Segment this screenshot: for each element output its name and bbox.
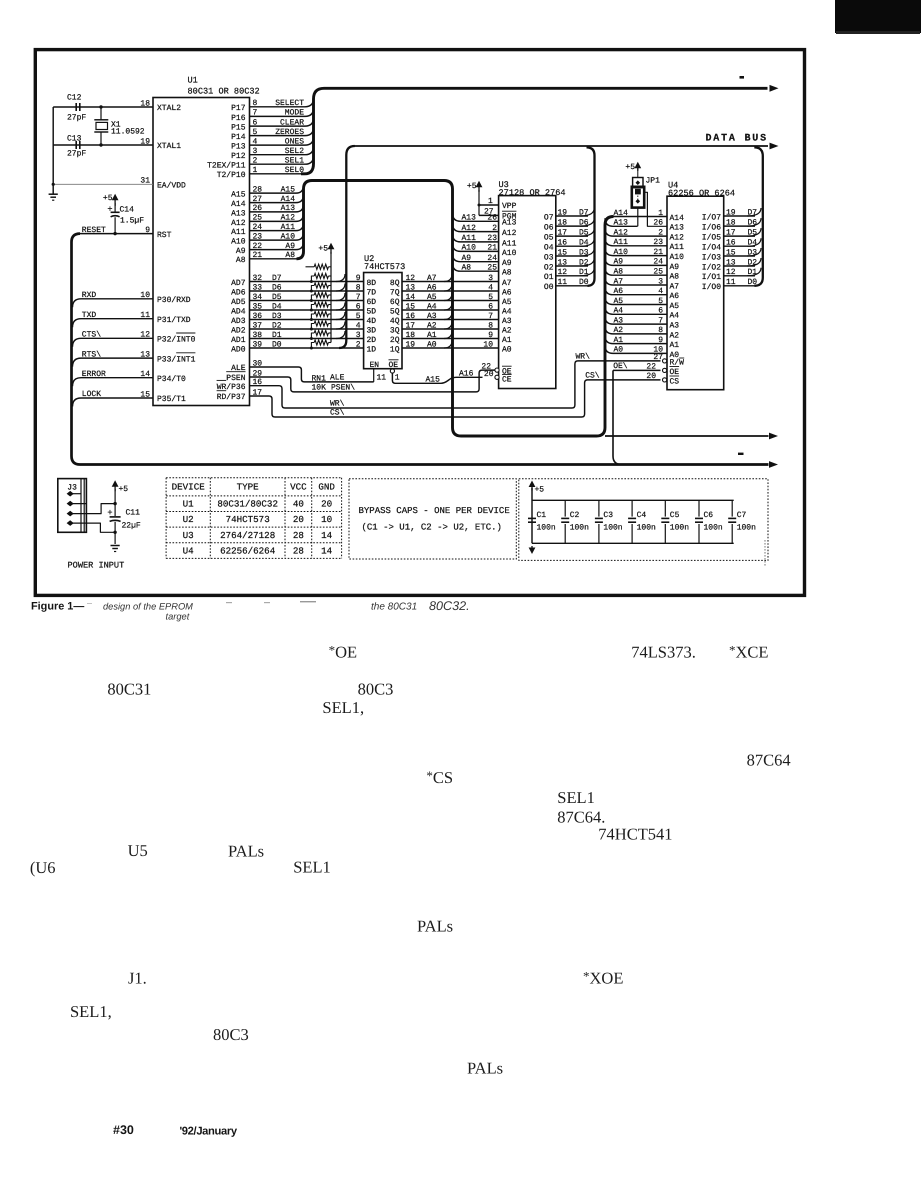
svg-text:POWER INPUT: POWER INPUT <box>68 561 125 571</box>
svg-text:CLEAR: CLEAR <box>280 118 304 127</box>
svg-text:A5: A5 <box>670 302 680 311</box>
wires RXD TXD CTS RTS ERROR LOCK from U1 to trunk <box>73 299 154 308</box>
svg-text:DATA BUS: DATA BUS <box>706 134 768 145</box>
svg-text:3D: 3D <box>367 326 377 335</box>
svg-text:*XCE: *XCE <box>729 643 769 662</box>
svg-text:A13: A13 <box>281 204 296 213</box>
svg-text:RD/P37: RD/P37 <box>217 393 246 402</box>
svg-text:38: 38 <box>253 331 263 340</box>
svg-text:SELECT: SELECT <box>275 99 304 108</box>
svg-text:A0: A0 <box>502 345 512 354</box>
bypass +5 rail and ground rail <box>531 488 533 543</box>
svg-text:A0: A0 <box>614 346 624 355</box>
svg-text:7Q: 7Q <box>390 288 400 297</box>
svg-text:A13: A13 <box>502 219 517 228</box>
svg-text:I/O7: I/O7 <box>702 213 721 222</box>
svg-text:(C1 -> U1, C2 -> U2, ETC.): (C1 -> U1, C2 -> U2, ETC.) <box>362 523 502 533</box>
svg-text:O5: O5 <box>544 234 554 243</box>
svg-text:8: 8 <box>253 99 258 108</box>
svg-text:A9: A9 <box>670 263 680 272</box>
svg-text:PSEN\: PSEN\ <box>331 383 355 392</box>
svg-text:O7: O7 <box>544 213 554 222</box>
svg-text:P17: P17 <box>231 104 246 113</box>
svg-text:+: + <box>107 508 112 518</box>
svg-text:19: 19 <box>406 340 416 349</box>
svg-text:A12: A12 <box>231 219 246 228</box>
bus data trunk up to DATA BUS line <box>339 146 355 348</box>
bus DATA BUS with arrow <box>354 145 768 147</box>
svg-text:BYPASS CAPS - ONE PER DEVICE: BYPASS CAPS - ONE PER DEVICE <box>359 506 510 516</box>
svg-text:4D: 4D <box>367 317 377 326</box>
svg-text:'92/January: '92/January <box>180 1126 238 1138</box>
svg-text:A14: A14 <box>281 195 296 204</box>
svg-text:19: 19 <box>726 208 736 217</box>
svg-text:A6: A6 <box>427 283 437 292</box>
svg-text:6: 6 <box>488 302 493 311</box>
svg-text:D6: D6 <box>272 283 282 292</box>
svg-text:74HCT573: 74HCT573 <box>364 262 405 272</box>
svg-text:(U6: (U6 <box>30 858 56 877</box>
bus U4 data trunk to DATA BUS <box>754 147 763 285</box>
svg-text:100n: 100n <box>670 524 689 533</box>
svg-text:+: + <box>107 205 112 215</box>
capacitors C1-C7 100n <box>528 517 536 519</box>
svg-text:I/O3: I/O3 <box>702 253 721 262</box>
svg-text:A9: A9 <box>502 259 512 268</box>
svg-text:20: 20 <box>293 514 304 525</box>
svg-text:C6: C6 <box>704 511 714 520</box>
svg-text:O1: O1 <box>544 273 554 282</box>
svg-text:17: 17 <box>726 228 736 237</box>
printing artifact dashes <box>740 76 745 79</box>
svg-text:PALs: PALs <box>467 1059 503 1078</box>
svg-text:D2: D2 <box>272 321 282 330</box>
svg-text:15: 15 <box>558 248 568 257</box>
wire OE to U4 OE and exit bus <box>613 369 661 371</box>
svg-text:CE: CE <box>502 376 512 385</box>
svg-text:P33/INT1: P33/INT1 <box>157 355 196 364</box>
svg-text:A9: A9 <box>462 254 472 263</box>
svg-text:A10: A10 <box>614 248 629 257</box>
svg-text:11: 11 <box>377 374 387 383</box>
svg-text:AD0: AD0 <box>231 345 246 354</box>
svg-text:1: 1 <box>253 166 258 175</box>
latch U2 74HCT573 box <box>364 273 402 369</box>
svg-text:8Q: 8Q <box>390 279 400 288</box>
svg-text:24: 24 <box>487 254 497 263</box>
svg-text:U1: U1 <box>188 76 198 86</box>
svg-text:A16: A16 <box>459 369 474 378</box>
svg-text:A12: A12 <box>281 214 296 223</box>
svg-text:8: 8 <box>356 283 361 292</box>
svg-text:AD6: AD6 <box>231 288 246 297</box>
svg-text:A2: A2 <box>614 326 624 335</box>
svg-text:A8: A8 <box>462 264 472 273</box>
svg-text:I/O6: I/O6 <box>702 224 721 233</box>
svg-text:SEL1: SEL1 <box>557 788 595 807</box>
svg-text:17: 17 <box>558 228 568 237</box>
note box bypass caps <box>349 479 516 559</box>
wire ALE to U2 EN <box>250 367 374 382</box>
svg-text:D0: D0 <box>272 340 282 349</box>
svg-text:3: 3 <box>356 331 361 340</box>
svg-text:A12: A12 <box>614 228 629 237</box>
svg-text:TYPE: TYPE <box>237 482 260 493</box>
svg-text:A1: A1 <box>614 336 624 345</box>
bus address continuation arrow bottom <box>605 435 769 437</box>
svg-text:A4: A4 <box>670 312 680 321</box>
svg-text:*XOE: *XOE <box>583 969 623 988</box>
svg-text:A8: A8 <box>502 269 512 278</box>
svg-text:A7: A7 <box>614 277 624 286</box>
svg-text:A11: A11 <box>281 223 296 232</box>
svg-text:J1.: J1. <box>128 969 147 988</box>
svg-text:A0: A0 <box>427 340 437 349</box>
svg-text:27: 27 <box>253 195 263 204</box>
ground symbol below C11 <box>111 545 120 547</box>
svg-text:P14: P14 <box>231 133 246 142</box>
svg-text:1Q: 1Q <box>390 345 400 354</box>
svg-text:26: 26 <box>253 204 263 213</box>
+5 symbol bypass rail <box>531 484 533 491</box>
wire JP1 to A13 net <box>637 208 639 227</box>
svg-text:4: 4 <box>356 321 361 330</box>
svg-text:A10: A10 <box>670 253 685 262</box>
svg-text:A11: A11 <box>670 243 685 252</box>
svg-text:23: 23 <box>487 234 497 243</box>
svg-text:11.0592: 11.0592 <box>111 128 145 137</box>
svg-text:AD5: AD5 <box>231 298 246 307</box>
svg-text:3: 3 <box>488 274 493 283</box>
svg-text:A4: A4 <box>614 307 624 316</box>
svg-text:A2: A2 <box>427 321 437 330</box>
svg-text:C3: C3 <box>603 511 613 520</box>
svg-text:3: 3 <box>253 147 258 156</box>
svg-text:C5: C5 <box>670 511 680 520</box>
svg-text:A13: A13 <box>670 224 685 233</box>
svg-text:28: 28 <box>253 185 263 194</box>
svg-text:2: 2 <box>356 340 361 349</box>
svg-text:24: 24 <box>253 223 263 232</box>
svg-text:A7: A7 <box>670 282 680 291</box>
connector J3 power input <box>58 479 87 533</box>
svg-text:5: 5 <box>253 128 258 137</box>
svg-text:10K: 10K <box>312 384 327 393</box>
svg-text:A9: A9 <box>236 247 246 256</box>
+5 symbol for RN1 <box>330 246 332 254</box>
svg-text:U3: U3 <box>183 530 194 541</box>
svg-text:Figure 1—: Figure 1— <box>31 601 84 613</box>
capacitor C12 <box>75 103 77 111</box>
svg-text:6D: 6D <box>367 298 377 307</box>
svg-text:14: 14 <box>321 530 333 541</box>
svg-text:80C31: 80C31 <box>107 680 151 699</box>
svg-text:19: 19 <box>558 208 568 217</box>
svg-text:32: 32 <box>253 274 263 283</box>
svg-text:D1: D1 <box>272 331 282 340</box>
svg-text:design of the EPROM: design of the EPROM <box>103 602 193 612</box>
svg-text:+5: +5 <box>535 486 545 495</box>
svg-text:74LS373.: 74LS373. <box>631 643 696 662</box>
svg-text:1.5µF: 1.5µF <box>120 217 144 226</box>
svg-text:7D: 7D <box>367 288 377 297</box>
svg-text:7: 7 <box>488 312 493 321</box>
svg-text:CTS\: CTS\ <box>82 331 101 340</box>
svg-text:ONES: ONES <box>285 137 304 146</box>
svg-text:TXD: TXD <box>82 311 97 320</box>
svg-text:A9: A9 <box>285 242 295 251</box>
svg-text:25: 25 <box>253 214 263 223</box>
svg-text:+5: +5 <box>103 194 113 203</box>
svg-text:OE: OE <box>670 368 680 377</box>
bypass caps outer dashed box <box>519 479 768 561</box>
svg-text:A1: A1 <box>427 331 437 340</box>
svg-text:AD2: AD2 <box>231 326 246 335</box>
svg-text:12: 12 <box>558 268 568 277</box>
svg-text:C11: C11 <box>126 509 141 518</box>
svg-text:1: 1 <box>488 197 493 206</box>
wire EA/VDD net (pin 31, faint) <box>53 183 153 185</box>
svg-text:A10: A10 <box>281 232 296 241</box>
svg-text:XTAL1: XTAL1 <box>157 142 181 151</box>
svg-text:+5: +5 <box>119 485 129 494</box>
svg-text:I/O4: I/O4 <box>702 244 721 253</box>
svg-text:ZEROES: ZEROES <box>275 128 304 137</box>
svg-text:RTS\: RTS\ <box>82 350 101 359</box>
svg-text:26: 26 <box>653 219 663 228</box>
svg-text:EN: EN <box>370 361 380 370</box>
svg-text:SEL0: SEL0 <box>285 166 304 175</box>
svg-text:7: 7 <box>253 109 258 118</box>
svg-text:80C3: 80C3 <box>213 1025 249 1044</box>
svg-text:O0: O0 <box>544 283 554 292</box>
svg-text:P30/RXD: P30/RXD <box>157 296 191 305</box>
svg-text:D0: D0 <box>579 278 589 287</box>
svg-text:17: 17 <box>406 321 416 330</box>
svg-text:O4: O4 <box>544 244 554 253</box>
svg-text:P15: P15 <box>231 124 246 133</box>
svg-text:100n: 100n <box>704 524 723 533</box>
svg-text:39: 39 <box>253 340 263 349</box>
svg-text:A15: A15 <box>426 375 441 384</box>
svg-text:JP1: JP1 <box>646 177 661 186</box>
svg-text:37: 37 <box>253 321 263 330</box>
svg-text:74HCT541: 74HCT541 <box>598 825 672 844</box>
svg-text:35: 35 <box>253 302 263 311</box>
svg-text:P12: P12 <box>231 152 246 161</box>
svg-text:C2: C2 <box>570 511 580 520</box>
wire CS to U4 CS <box>250 380 661 417</box>
svg-text:2Q: 2Q <box>390 336 400 345</box>
ground arrow below bypass rail <box>531 546 533 551</box>
svg-text:5: 5 <box>488 293 493 302</box>
svg-text:80C31 OR 80C32: 80C31 OR 80C32 <box>188 87 260 97</box>
svg-text:O3: O3 <box>544 253 554 262</box>
svg-text:11: 11 <box>558 278 568 287</box>
svg-text:5: 5 <box>356 312 361 321</box>
svg-text:28: 28 <box>293 545 304 556</box>
svg-text:A5: A5 <box>614 297 624 306</box>
svg-text:100n: 100n <box>637 524 656 533</box>
svg-text:2: 2 <box>492 224 497 233</box>
svg-text:T2/P10: T2/P10 <box>217 171 246 180</box>
junction EA/VDD rail <box>52 183 55 186</box>
svg-text:A11: A11 <box>614 238 629 247</box>
svg-text:23: 23 <box>253 232 263 241</box>
svg-text:P16: P16 <box>231 114 246 123</box>
svg-text:6Q: 6Q <box>390 298 400 307</box>
svg-text:D3: D3 <box>272 312 282 321</box>
wire A15 from U2 OE to U3 CE (A16) <box>392 373 482 383</box>
svg-text:A5: A5 <box>427 293 437 302</box>
svg-text:A14: A14 <box>614 209 629 218</box>
svg-text:27pF: 27pF <box>67 150 86 159</box>
svg-text:A9: A9 <box>614 258 624 267</box>
wire XTAL1 net (pin 19) <box>53 144 153 146</box>
data row merge fillets into data trunk <box>336 274 345 282</box>
svg-text:I/O2: I/O2 <box>702 263 721 272</box>
svg-text:A6: A6 <box>502 288 512 297</box>
wires SELECT..SEL0 with pin numbers <box>250 98 314 107</box>
svg-text:11: 11 <box>726 278 736 287</box>
svg-text:10: 10 <box>321 514 332 525</box>
resistor network RN1 10K (9 elements) <box>306 266 315 268</box>
svg-text:U2: U2 <box>183 514 194 525</box>
svg-text:A7: A7 <box>502 279 512 288</box>
svg-text:80C32.: 80C32. <box>429 599 470 613</box>
svg-text:30: 30 <box>253 359 263 368</box>
svg-text:1: 1 <box>395 374 400 383</box>
svg-text:8D: 8D <box>367 279 377 288</box>
svg-text:A3: A3 <box>502 317 512 326</box>
wire left rail to ground <box>52 107 54 194</box>
svg-text:A4: A4 <box>502 307 512 316</box>
table device power pins <box>166 477 342 479</box>
bus port-1 signals trunk to top arrow <box>301 88 768 174</box>
svg-text:U4: U4 <box>183 545 195 556</box>
svg-text:20: 20 <box>484 370 494 379</box>
+5 to U3 VPP and PGM <box>478 184 480 192</box>
svg-text:A8: A8 <box>285 251 295 260</box>
svg-text:80C3: 80C3 <box>358 680 394 699</box>
svg-text:WR\: WR\ <box>576 352 591 361</box>
svg-text:A15: A15 <box>231 191 246 200</box>
svg-text:21: 21 <box>253 251 263 260</box>
svg-text:87C64.: 87C64. <box>557 807 605 826</box>
svg-text:9: 9 <box>488 331 493 340</box>
svg-text:A13: A13 <box>231 209 246 218</box>
svg-text:14: 14 <box>321 545 333 556</box>
svg-text:VPP: VPP <box>502 202 517 211</box>
wire WR to U4 R/W <box>250 361 661 408</box>
svg-text:5Q: 5Q <box>390 307 400 316</box>
svg-text:AD7: AD7 <box>231 279 246 288</box>
svg-text:100n: 100n <box>570 524 589 533</box>
svg-text:A11: A11 <box>462 234 477 243</box>
svg-text:6: 6 <box>356 302 361 311</box>
svg-text:D7: D7 <box>272 274 282 283</box>
svg-text:A6: A6 <box>614 287 624 296</box>
svg-text:18: 18 <box>726 218 736 227</box>
ground symbol below left rail <box>49 193 58 195</box>
svg-text:SEL2: SEL2 <box>285 147 304 156</box>
svg-text:C12: C12 <box>67 94 82 103</box>
crystal X1 11.0592 <box>100 107 102 120</box>
wires AD7..AD0 from U1 to U2 inputs <box>250 281 364 283</box>
svg-text:22: 22 <box>253 242 263 251</box>
svg-text:OE\: OE\ <box>613 362 628 371</box>
svg-text:D5: D5 <box>272 293 282 302</box>
svg-text:U1: U1 <box>183 499 195 510</box>
junction C14 on RST wire <box>113 232 116 235</box>
svg-text:13: 13 <box>726 258 736 267</box>
svg-text:6: 6 <box>253 118 258 127</box>
svg-text:12: 12 <box>726 268 736 277</box>
svg-text:P31/TXD: P31/TXD <box>157 316 191 325</box>
svg-text:PALs: PALs <box>417 917 453 936</box>
svg-text:A6: A6 <box>670 292 680 301</box>
svg-text:4: 4 <box>488 283 493 292</box>
svg-text:16: 16 <box>558 239 568 248</box>
svg-text:C1: C1 <box>537 511 547 520</box>
svg-text:4Q: 4Q <box>390 317 400 326</box>
EPROM U3 27128 OR 2764 box <box>499 196 556 389</box>
J3 pin wires <box>70 493 81 495</box>
svg-text:P13: P13 <box>231 143 246 152</box>
svg-text:+5: +5 <box>318 245 328 254</box>
svg-text:CS\: CS\ <box>585 371 600 380</box>
svg-text:A13: A13 <box>614 219 629 228</box>
svg-text:27pF: 27pF <box>67 114 86 123</box>
svg-text:A2: A2 <box>502 326 512 335</box>
svg-text:A4: A4 <box>427 302 437 311</box>
svg-text:RST: RST <box>157 231 172 240</box>
capacitor C13 <box>75 141 77 149</box>
svg-text:CS\: CS\ <box>330 408 345 417</box>
svg-text:4: 4 <box>253 137 258 146</box>
RAM U4 62256 OR 6264 box <box>667 196 724 390</box>
svg-text:P32/INT0: P32/INT0 <box>157 336 196 345</box>
svg-text:20: 20 <box>646 372 656 381</box>
svg-text:A14: A14 <box>231 200 246 209</box>
bus U3 data trunk to DATA BUS <box>587 147 595 285</box>
svg-text:P34/T0: P34/T0 <box>157 375 186 384</box>
svg-text:A10: A10 <box>462 244 477 253</box>
svg-text:DEVICE: DEVICE <box>172 482 206 493</box>
svg-text:15: 15 <box>406 302 416 311</box>
svg-text:I/O5: I/O5 <box>702 234 721 243</box>
svg-text:A7: A7 <box>427 274 437 283</box>
svg-text:I/O0: I/O0 <box>702 283 721 292</box>
svg-text:28: 28 <box>293 530 304 541</box>
svg-text:AD3: AD3 <box>231 317 246 326</box>
svg-text:+5: +5 <box>467 182 477 191</box>
wire RESET to RST pin 9 <box>80 233 153 235</box>
svg-text:target: target <box>166 612 190 622</box>
svg-text:VCC: VCC <box>290 482 307 493</box>
svg-text:A1: A1 <box>502 336 512 345</box>
svg-text:XTAL2: XTAL2 <box>157 104 181 113</box>
svg-text:ERROR: ERROR <box>82 370 106 379</box>
svg-text:T2EX/P11: T2EX/P11 <box>207 162 246 171</box>
svg-text:PALs: PALs <box>228 842 264 861</box>
svg-text:2764/27128: 2764/27128 <box>220 530 275 541</box>
svg-text:RESET: RESET <box>82 226 106 235</box>
svg-text:26: 26 <box>487 214 497 223</box>
wire +5 rail of RN1 <box>330 252 332 343</box>
capacitor C11 22uF <box>114 489 116 516</box>
op U1 80C31/80C32 microcontroller box <box>153 98 250 406</box>
